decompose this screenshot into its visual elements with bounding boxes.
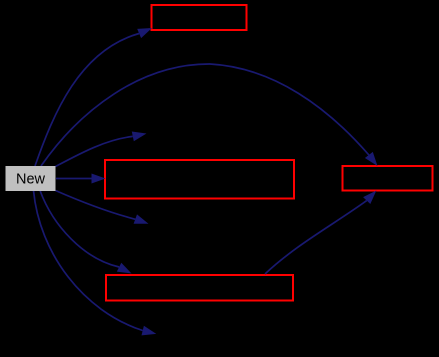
edge New to hidden node B [56,191,149,224]
edge New to top box [35,28,152,166]
box right (red node) [343,166,433,191]
node New (grey current node) [6,166,56,191]
svg-text:New: New [16,172,46,188]
edge bottom box to right box [265,191,376,275]
box top (red node) [152,5,247,30]
edge New to hidden node C [34,191,157,336]
box bottom (red node) [106,275,293,301]
edge New to bottom box [40,191,132,274]
box middle (red node, two-line) [105,160,294,199]
edge New to right box (top) [41,64,378,166]
edge New to middle box [56,174,106,184]
edge New to hidden node A [56,132,147,167]
